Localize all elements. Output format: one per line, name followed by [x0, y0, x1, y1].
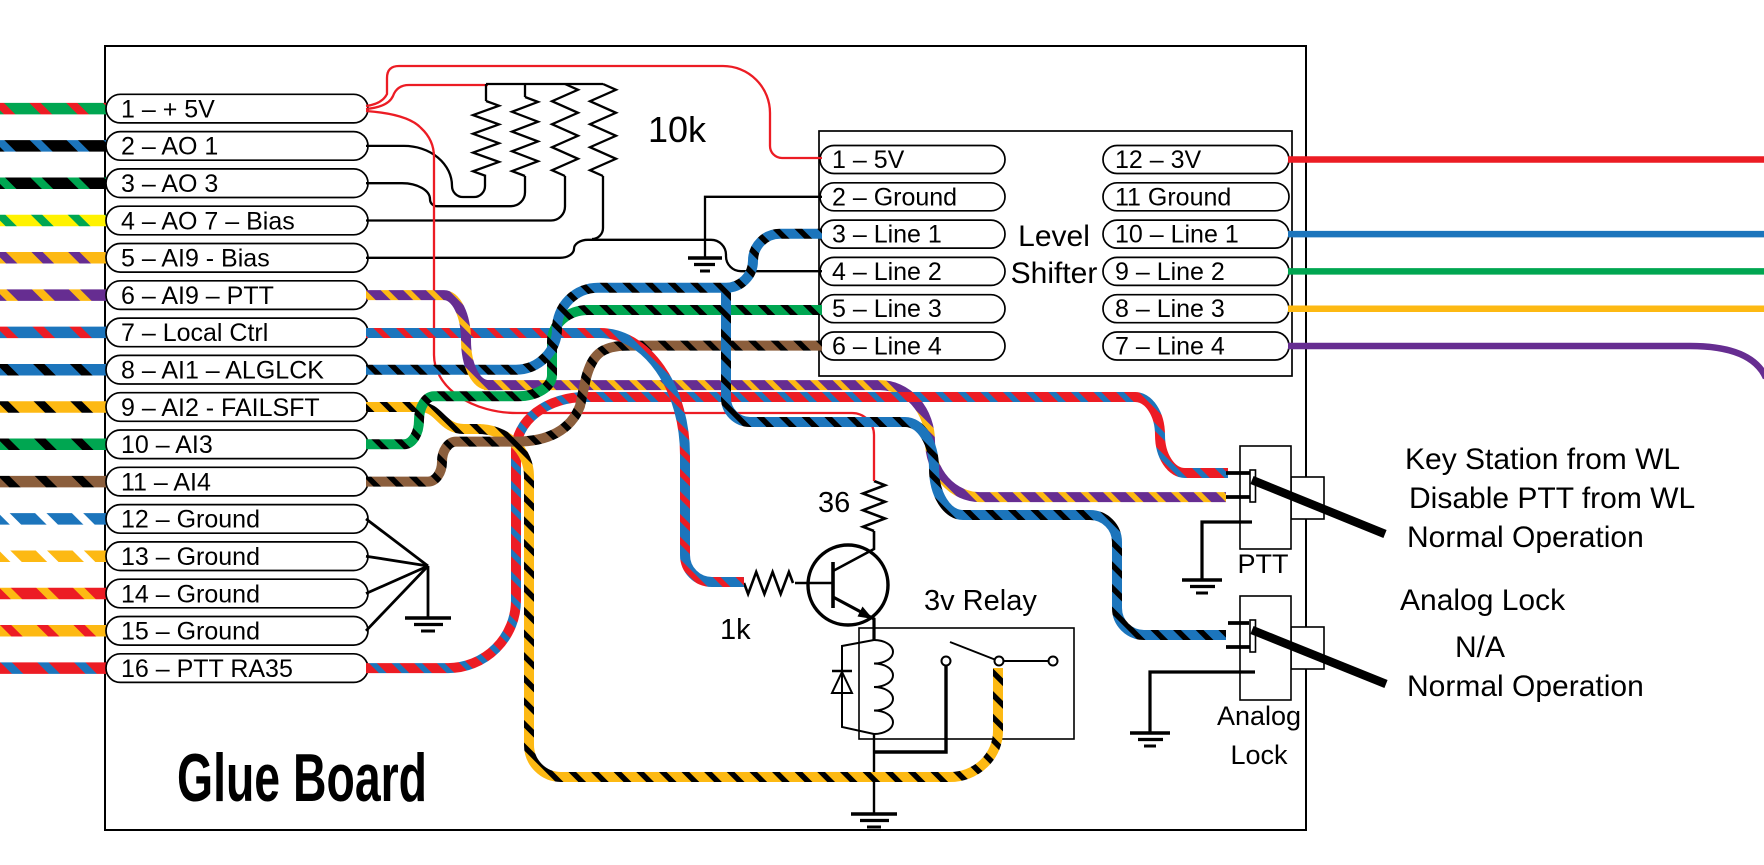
connector pin pill 8 – AI1 – ALGLCK — [106, 355, 368, 384]
resistor R1 10k — [485, 84, 487, 101]
svg-text:1k: 1k — [720, 614, 751, 646]
wire coil to relay contact — [874, 666, 946, 752]
svg-text:Disable PTT from WL: Disable PTT from WL — [1409, 482, 1695, 515]
stub pin analog top — [1228, 621, 1249, 625]
svg-text:Normal Operation: Normal Operation — [1407, 670, 1644, 703]
wire W14 left stub — [0, 588, 110, 600]
svg-text:Shifter: Shifter — [1011, 257, 1098, 290]
svg-text:2 – Ground: 2 – Ground — [832, 183, 957, 211]
connector pin pill 7 – Local Ctrl — [106, 318, 368, 347]
connector pin pill 13 – Ground — [106, 542, 368, 571]
connector pin pill 6 – AI9 – PTT — [106, 281, 368, 310]
svg-text:N/A: N/A — [1455, 631, 1505, 664]
ground symbol PTT — [1182, 578, 1222, 581]
svg-text:16 – PTT RA35: 16 – PTT RA35 — [121, 655, 293, 683]
svg-text:Lock: Lock — [1230, 740, 1288, 770]
wire PTT ground — [1202, 522, 1252, 580]
wire pin2 AO1 to R1 — [366, 146, 485, 197]
node 5V bus red to resistor tops — [366, 85, 488, 109]
stub J2 pin — [1226, 645, 1250, 649]
glue board outer border — [105, 46, 1306, 830]
wire R5 to collector — [833, 531, 874, 571]
wire W11 left stub — [0, 476, 110, 488]
wire W1 left stub — [0, 103, 110, 115]
wire 3V out (red) — [1288, 156, 1764, 163]
ground symbol analog lock — [1130, 731, 1170, 734]
wire Line2 out (green) — [1288, 268, 1764, 275]
wire W2 left stub — [0, 140, 110, 152]
level shifter pin 4 – Line 2 — [820, 257, 1005, 285]
connector pin pill 11 – AI4 — [106, 467, 368, 496]
svg-text:Normal Operation: Normal Operation — [1407, 521, 1644, 554]
svg-text:PTT: PTT — [1238, 549, 1289, 579]
svg-text:2 – AO 1: 2 – AO 1 — [121, 133, 218, 161]
wire W15 left stub — [0, 625, 110, 637]
level shifter pin 8 – Line 3 — [1103, 295, 1289, 323]
wire W4 left stub — [0, 215, 110, 227]
svg-text:10k: 10k — [648, 109, 707, 150]
svg-text:6 – Line 4: 6 – Line 4 — [832, 333, 942, 361]
wire Line1 out (blue) — [1288, 231, 1764, 238]
svg-text:Key Station from WL: Key Station from WL — [1405, 443, 1680, 476]
wire coil to ground — [873, 734, 875, 814]
stub J1 pin2 — [1226, 495, 1250, 499]
svg-text:Level: Level — [1018, 220, 1090, 253]
emitter with arrow — [833, 597, 874, 640]
relay contacts — [942, 657, 951, 666]
svg-text:Analog: Analog — [1217, 701, 1301, 731]
connector pin pill 1 – + 5V — [106, 94, 368, 123]
relay switch lever — [950, 642, 996, 660]
wire W11 AI4 to Line4 (brown/black) — [366, 346, 822, 482]
svg-text:36: 36 — [818, 487, 850, 519]
wire W10 left stub — [0, 439, 110, 451]
relay K1 box — [859, 628, 1074, 739]
resistor R6 1k — [744, 572, 793, 594]
diode D1 flyback — [842, 640, 874, 734]
ground symbol for pins 12-15 — [405, 616, 451, 619]
wire W12 left stub — [0, 513, 110, 525]
wire level shifter 2-Ground — [705, 197, 822, 258]
wire W8 left stub — [0, 364, 110, 376]
svg-text:9 – Line 2: 9 – Line 2 — [1115, 258, 1225, 286]
wire W16 PTT RA35 to J1 pin (red/blue) — [366, 397, 1228, 668]
level shifter pin 10 – Line 1 — [1103, 220, 1289, 248]
transistor Q1 — [808, 545, 888, 625]
svg-text:11 – AI4: 11 – AI4 — [121, 468, 211, 496]
svg-text:7 – Local Ctrl: 7 – Local Ctrl — [121, 319, 268, 347]
wire W8 AI1-ALGLCK to Line1 (blue/black) — [366, 234, 822, 370]
connector pin pill 2 – AO 1 — [106, 132, 368, 161]
svg-text:1 – + 5V: 1 – + 5V — [121, 95, 215, 123]
svg-text:3 – AO 3: 3 – AO 3 — [121, 170, 218, 198]
level shifter pin 6 – Line 4 — [820, 332, 1005, 360]
connector pin pill 4 – AO 7 – Bias — [106, 206, 368, 235]
wire W16 left stub — [0, 662, 110, 674]
wire W7 Local Ctrl to R6 1k (blue/red) — [366, 333, 744, 582]
svg-text:10 – Line 1: 10 – Line 1 — [1115, 221, 1239, 249]
ground symbol under relay — [851, 812, 897, 815]
level shifter pin 12 – 3V — [1103, 146, 1289, 174]
svg-text:12 – Ground: 12 – Ground — [121, 506, 260, 534]
level shifter pin 2 – Ground — [820, 183, 1005, 211]
connector pin pill 15 – Ground — [106, 617, 368, 646]
ground symbol near level shifter — [688, 256, 722, 259]
svg-text:13 – Ground: 13 – Ground — [121, 543, 260, 571]
wire W9 left stub — [0, 401, 110, 413]
relay coil — [874, 640, 893, 734]
wire W6 AI9-PTT horizontal run (purple/gold) — [484, 385, 1226, 497]
arrow PTT normal operation — [1252, 480, 1385, 534]
svg-text:11 Ground: 11 Ground — [1115, 183, 1231, 211]
wire analog ground — [1150, 672, 1255, 733]
connector pin pill 14 – Ground — [106, 579, 368, 608]
svg-text:7 – Line 4: 7 – Line 4 — [1115, 333, 1225, 361]
svg-text:Analog Lock: Analog Lock — [1400, 584, 1566, 617]
wire Line3 out (gold) — [1288, 305, 1764, 312]
connector pin pill 16 – PTT RA35 — [106, 654, 368, 683]
svg-text:4 – AO 7 – Bias: 4 – AO 7 – Bias — [121, 207, 295, 235]
connector pin pill 9 – AI2 - FAILSFT — [106, 393, 368, 422]
svg-text:1 – 5V: 1 – 5V — [832, 146, 905, 174]
connector pin pill 12 – Ground — [106, 505, 368, 534]
connector pin pill 5 – AI9 - Bias — [106, 244, 368, 273]
svg-text:8 – Line 3: 8 – Line 3 — [1115, 295, 1225, 323]
wire pin4 AO7 to R3 — [366, 176, 565, 221]
svg-text:6 – AI9 – PTT: 6 – AI9 – PTT — [121, 282, 274, 310]
connector J2 Analog Lock — [1291, 627, 1324, 669]
svg-text:3v Relay: 3v Relay — [924, 585, 1037, 617]
wire W7 left stub — [0, 327, 110, 339]
level shifter pin 1 – 5V — [820, 146, 1005, 174]
resistor R4 10k — [590, 84, 616, 176]
svg-text:14 – Ground: 14 – Ground — [121, 580, 260, 608]
wire W3 left stub — [0, 177, 110, 189]
svg-text:Glue Board: Glue Board — [177, 740, 427, 816]
svg-text:10 – AI3: 10 – AI3 — [121, 431, 213, 459]
svg-text:9 – AI2 - FAILSFT: 9 – AI2 - FAILSFT — [121, 394, 320, 422]
svg-text:8 – AI1 – ALGLCK: 8 – AI1 – ALGLCK — [121, 357, 324, 385]
wire W6 left stub — [0, 289, 110, 301]
svg-text:5 – AI9 - Bias: 5 – AI9 - Bias — [121, 245, 270, 273]
wire 5V to level shifter pin1 (red) — [366, 66, 822, 158]
stub J1 pin1 — [1226, 471, 1250, 475]
connector J1 PTT — [1291, 477, 1324, 519]
level shifter U1 box — [819, 131, 1292, 376]
wire W13 left stub — [0, 550, 110, 562]
wire pin5 AI9-Bias to level shifter Line2 — [366, 240, 822, 271]
resistor top bus — [486, 83, 603, 85]
resistor R2 10k — [524, 84, 526, 97]
svg-text:15 – Ground: 15 – Ground — [121, 618, 260, 646]
svg-text:12 – 3V: 12 – 3V — [1115, 146, 1202, 174]
arrow analog lock normal operation — [1252, 630, 1386, 684]
wire W9 AI2-FAILSFT from pin 9 (gold/black) — [366, 407, 481, 429]
wire Line4 out (purple) — [1288, 346, 1764, 378]
wire pin3 AO3 to R2 — [366, 176, 525, 206]
wire W5 left stub — [0, 252, 110, 264]
resistor R5 36 — [863, 481, 885, 531]
level shifter pin 3 – Line 1 — [820, 220, 1005, 248]
svg-text:4 – Line 2: 4 – Line 2 — [832, 258, 942, 286]
connector pin pill 10 – AI3 — [106, 430, 368, 459]
svg-text:5 – Line 3: 5 – Line 3 — [832, 295, 942, 323]
resistor R3 10k — [552, 84, 578, 176]
level shifter pin 11 Ground — [1103, 183, 1289, 211]
connector pin pill 3 – AO 3 — [106, 169, 368, 198]
wire W8 branch to J2 analog lock (blue/black) — [726, 287, 1226, 635]
level shifter pin 7 – Line 4 — [1103, 332, 1289, 360]
svg-text:3 – Line 1: 3 – Line 1 — [832, 221, 942, 249]
level shifter pin 9 – Line 2 — [1103, 257, 1289, 285]
wire W6 AI9-PTT S-curve from pin 6 (purple/gold) — [366, 295, 496, 385]
wire W10 AI3 to Line3 (green/black) — [366, 310, 822, 444]
wire R4 bottom to Line2 net — [592, 176, 603, 239]
ground wires from pins 12-15 — [366, 519, 428, 566]
wire 5V to R5 36 (red) — [366, 111, 874, 481]
wire W9 descent to relay contact (gold/black) — [478, 429, 998, 777]
level shifter pin 5 – Line 3 — [820, 295, 1005, 323]
